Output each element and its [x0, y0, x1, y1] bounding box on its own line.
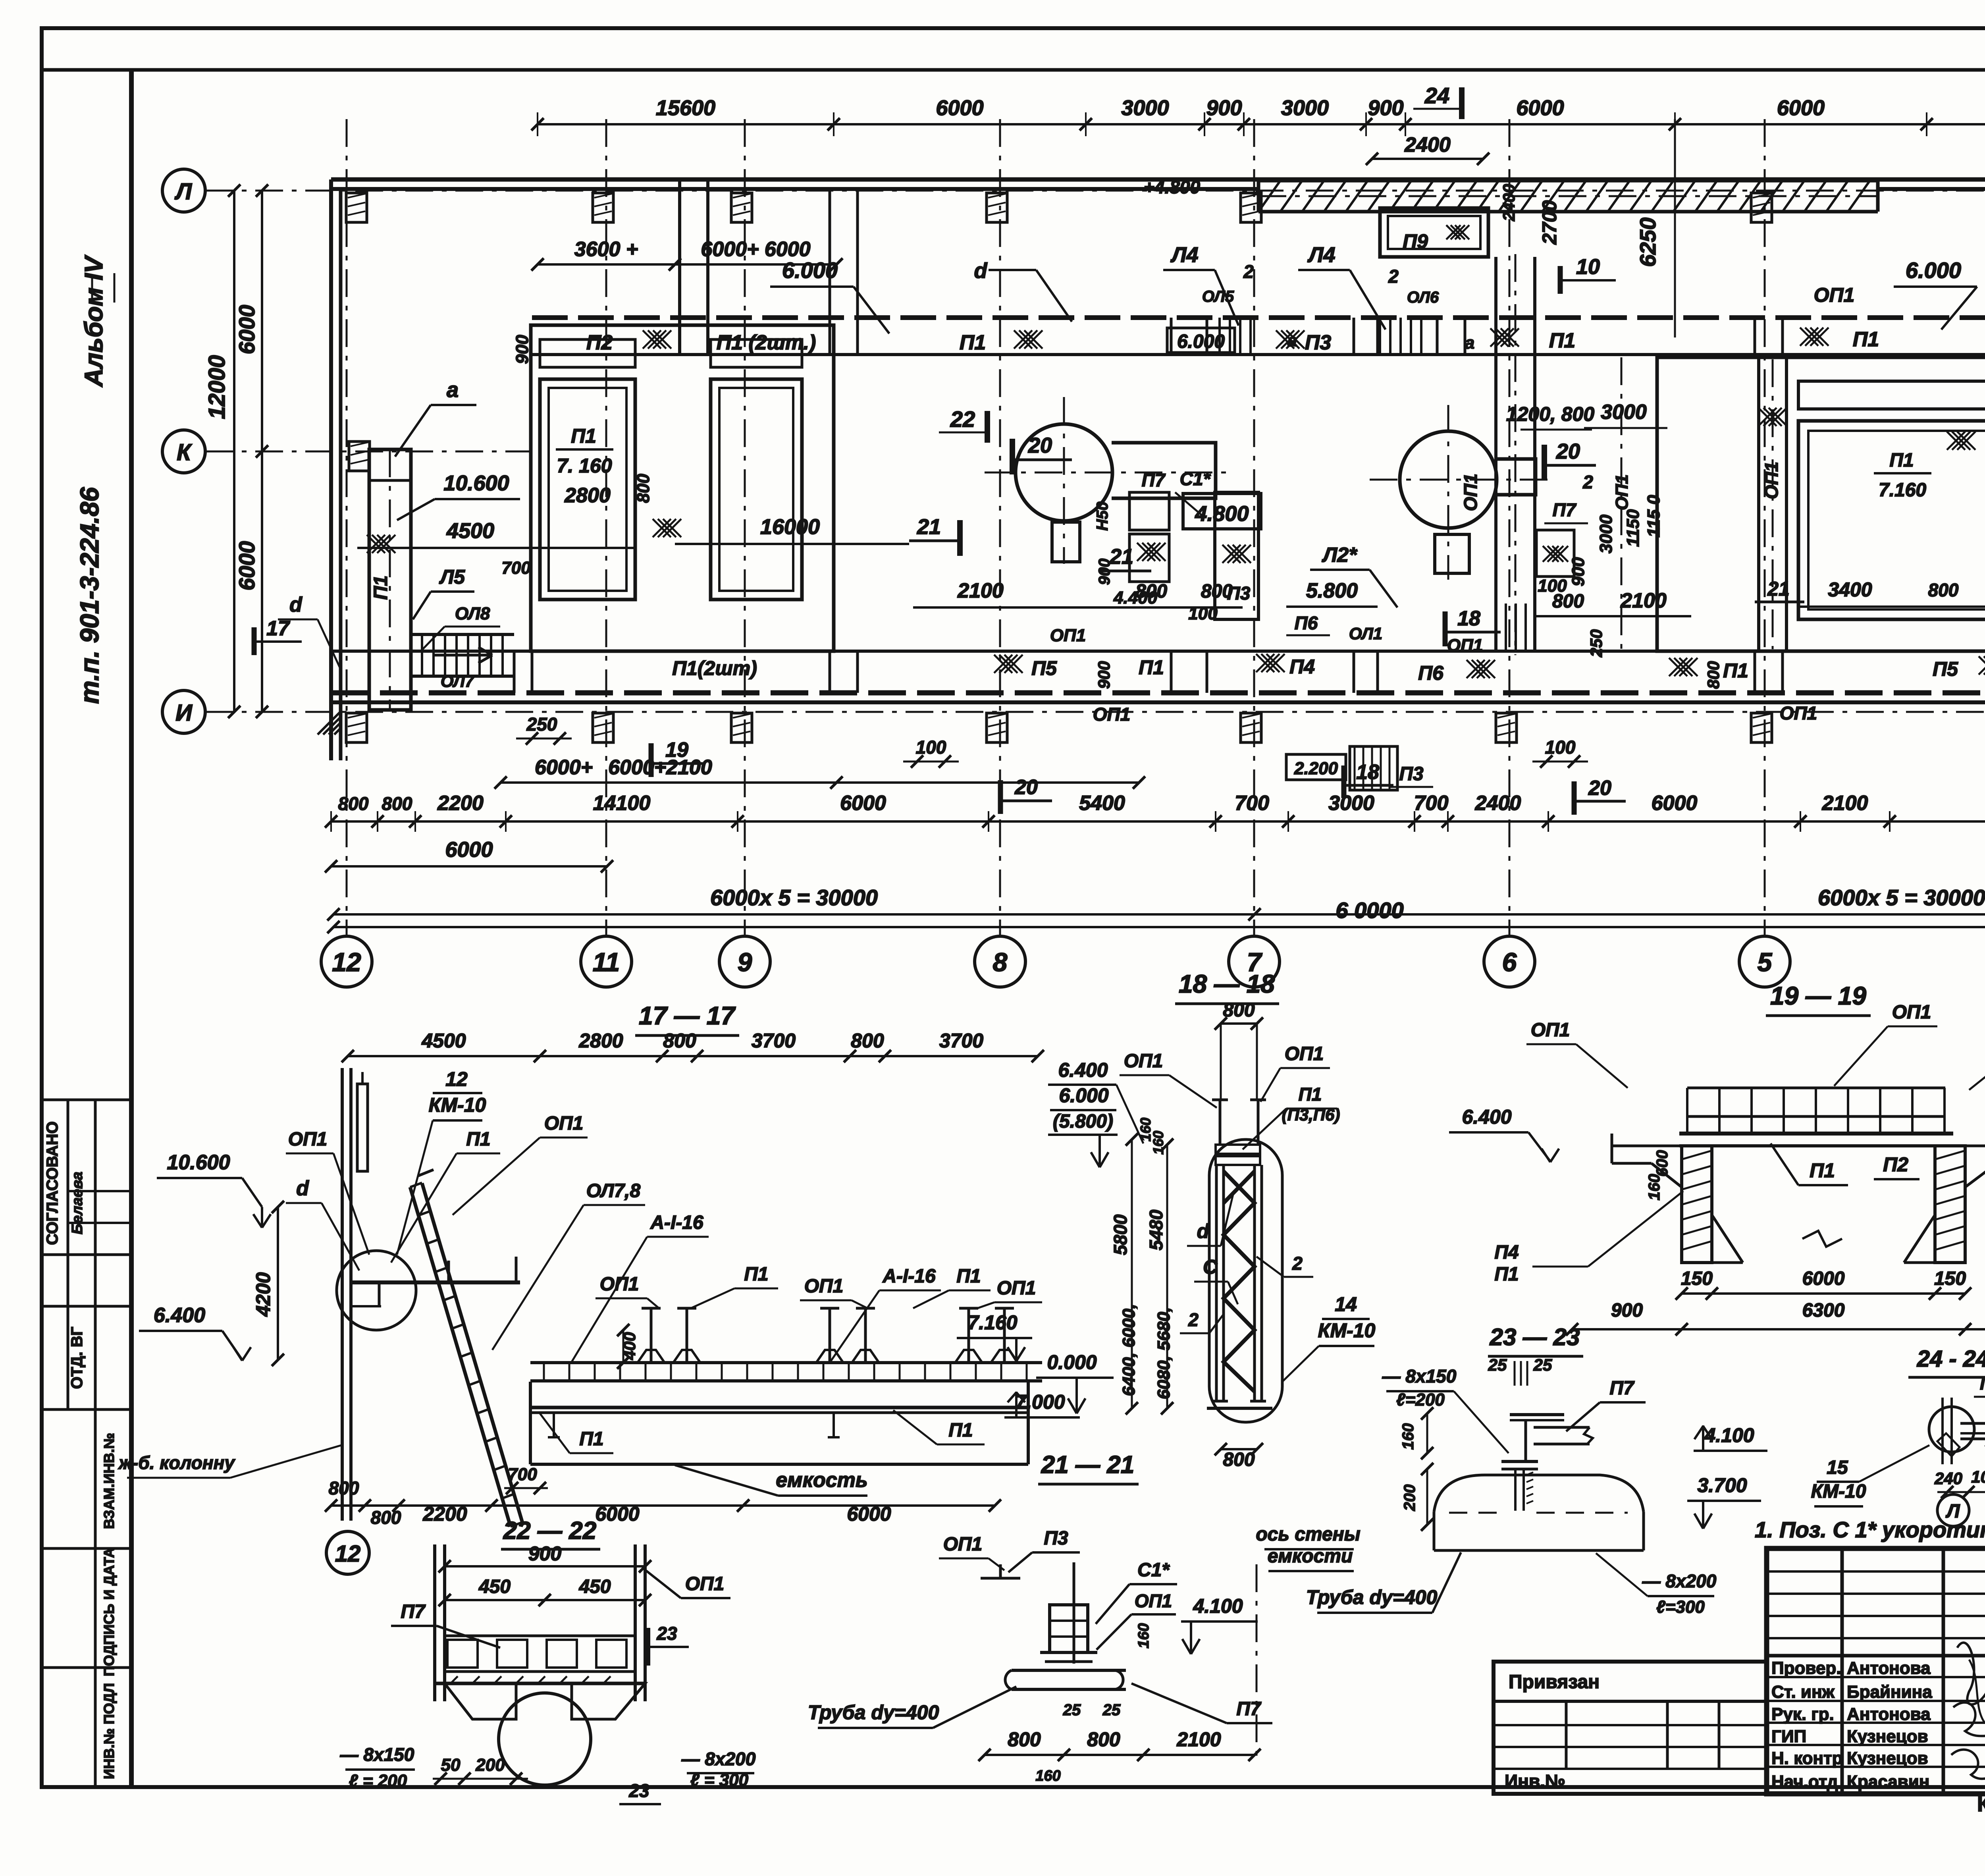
- grid axis circle 11: [581, 936, 632, 987]
- svg-text:емкость: емкость: [776, 1469, 868, 1492]
- axis circle L under 24-24: [1937, 1494, 1969, 1526]
- grid axis 9 line: [744, 119, 746, 936]
- svg-text:6300: 6300: [1802, 1300, 1845, 1321]
- svg-text:П3: П3: [1305, 331, 1331, 354]
- svg-text:(5.800): (5.800): [1053, 1111, 1113, 1132]
- left tank 1: [540, 379, 635, 600]
- svg-text:200: 200: [475, 1755, 505, 1775]
- svg-text:21: 21: [1767, 578, 1790, 600]
- svg-text:— 8х150: — 8х150: [340, 1744, 414, 1765]
- svg-text:ОП1: ОП1: [1531, 1020, 1570, 1041]
- section 22-22 pipe circle: [499, 1693, 591, 1785]
- section 21-21 box: [1050, 1605, 1088, 1652]
- svg-text:П1: П1: [1494, 1264, 1519, 1285]
- svg-text:а: а: [447, 378, 459, 402]
- svg-text:ИНВ.№ ПОДЛ: ИНВ.№ ПОДЛ: [101, 1683, 117, 1779]
- svg-text:ОП1: ОП1: [544, 1113, 584, 1134]
- section 19-19 railing grid: [1687, 1087, 1945, 1089]
- svg-text:СОГЛАСОВАНО: СОГЛАСОВАНО: [44, 1121, 61, 1245]
- svg-text:П7: П7: [1553, 499, 1577, 520]
- section 23-23 channel right with break: [1534, 1426, 1590, 1429]
- svg-text:— 8х200: — 8х200: [1642, 1571, 1717, 1591]
- svg-text:8: 8: [993, 947, 1008, 977]
- svg-text:П1(2шт): П1(2шт): [672, 657, 757, 679]
- svg-text:П1: П1: [571, 425, 596, 447]
- svg-text:2400: 2400: [1404, 133, 1451, 156]
- svg-text:800: 800: [1552, 591, 1584, 612]
- section 24-24 bracket channel: [1960, 1422, 1985, 1425]
- svg-text:800: 800: [1008, 1728, 1041, 1751]
- section 22-22 bottom band: [435, 1682, 645, 1685]
- upper walkway strip top chord OP1: [532, 315, 1985, 320]
- svg-text:2700: 2700: [1538, 200, 1561, 245]
- svg-text:т.п. 901-3-224.86: т.п. 901-3-224.86: [75, 487, 104, 704]
- small rooms P7 C1 near pump1: [1129, 492, 1169, 530]
- svg-text:23 — 23: 23 — 23: [1490, 1324, 1580, 1350]
- svg-text:П4: П4: [1289, 656, 1315, 678]
- svg-text:22 — 22: 22 — 22: [503, 1517, 596, 1544]
- svg-text:ВЗАМ.ИНВ.№: ВЗАМ.ИНВ.№: [101, 1433, 117, 1529]
- svg-text:17 — 17: 17 — 17: [639, 1001, 736, 1030]
- svg-text:800: 800: [382, 793, 412, 814]
- svg-text:ОП1: ОП1: [1780, 703, 1817, 723]
- svg-text:d: d: [974, 259, 988, 283]
- svg-text:700: 700: [1235, 792, 1269, 815]
- svg-text:6.400: 6.400: [1058, 1059, 1108, 1081]
- left landing top ledge: [369, 448, 411, 451]
- svg-text:20: 20: [1556, 440, 1580, 463]
- svg-text:1150: 1150: [1623, 509, 1643, 547]
- svg-text:6000: 6000: [1777, 96, 1825, 120]
- svg-text:П1: П1: [370, 575, 391, 600]
- svg-text:10.600: 10.600: [443, 471, 509, 495]
- svg-text:12000: 12000: [204, 355, 230, 419]
- svg-text:160: 160: [1399, 1423, 1417, 1450]
- svg-text:800: 800: [634, 474, 653, 503]
- svg-text:ℓ=200: ℓ=200: [1396, 1390, 1445, 1409]
- svg-text:200: 200: [1401, 1485, 1418, 1512]
- lower walkway strip top line: [331, 650, 1985, 653]
- svg-text:3600 +: 3600 +: [574, 238, 638, 261]
- svg-text:3000: 3000: [1601, 401, 1647, 424]
- svg-text:12: 12: [445, 1068, 468, 1090]
- svg-text:6.000: 6.000: [782, 258, 838, 283]
- svg-text:П1: П1: [1299, 1084, 1322, 1105]
- grid circle 12 under section 17-17: [326, 1531, 369, 1574]
- svg-text:ОП1: ОП1: [1135, 1591, 1172, 1611]
- section 17-17 plank row: [530, 1361, 1042, 1364]
- svg-text:1000: 1000: [1971, 1467, 1985, 1486]
- svg-text:6000: 6000: [840, 792, 886, 815]
- svg-text:700: 700: [501, 558, 531, 578]
- svg-text:11: 11: [593, 947, 620, 977]
- svg-text:ГИП: ГИП: [1771, 1727, 1806, 1746]
- svg-text:10: 10: [1576, 255, 1600, 279]
- svg-text:5400: 5400: [1079, 792, 1125, 815]
- left vertical dims 6000 6000: [261, 191, 263, 712]
- svg-text:Привязан: Привязан: [1509, 1672, 1600, 1693]
- svg-text:ОП1: ОП1: [997, 1278, 1036, 1299]
- svg-text:Ст. инж: Ст. инж: [1771, 1682, 1835, 1702]
- dim row 6000 left: [331, 865, 607, 868]
- section 18-18 detail capsule outline: [1209, 1139, 1282, 1422]
- svg-text:2.200: 2.200: [1294, 759, 1338, 778]
- svg-text:160: 160: [1035, 1768, 1060, 1784]
- svg-text:6080, 5680,: 6080, 5680,: [1154, 1307, 1174, 1399]
- svg-text:17: 17: [266, 617, 290, 640]
- svg-text:П1: П1: [1723, 659, 1748, 682]
- lower strip partitions: [513, 651, 516, 693]
- svg-text:— 8х200: — 8х200: [681, 1749, 756, 1769]
- svg-text:6000+2100: 6000+2100: [608, 756, 712, 779]
- svg-text:ОП1: ОП1: [1093, 704, 1130, 725]
- columns along bottom wall: [346, 713, 367, 742]
- section 21-21 vertical post: [1073, 1562, 1075, 1664]
- svg-text:6: 6: [1502, 947, 1517, 977]
- dim 2400 above stair room: [1372, 158, 1483, 160]
- section 18-18 left dim lines: [1131, 1139, 1133, 1408]
- svg-text:П7: П7: [1236, 1699, 1262, 1720]
- svg-text:800: 800: [1928, 580, 1959, 600]
- svg-text:Антонова: Антонова: [1847, 1704, 1931, 1724]
- svg-text:2: 2: [1188, 1309, 1199, 1330]
- svg-text:Кузнецов: Кузнецов: [1847, 1727, 1928, 1746]
- section 18-18 top connection plates: [1216, 1145, 1260, 1154]
- svg-text:6.000: 6.000: [1059, 1084, 1108, 1107]
- svg-text:ОП1: ОП1: [1892, 1002, 1931, 1023]
- axis K circle: [162, 430, 205, 473]
- svg-text:ОЛ5: ОЛ5: [1202, 288, 1234, 305]
- svg-text:1. Поз. С 1* укоротить на: 1. Поз. С 1* укоротить на 100мм, поз.Л2*: [1755, 1517, 1985, 1542]
- svg-text:0.000: 0.000: [1047, 1351, 1097, 1373]
- svg-text:Капировал:: Капировал:: [1977, 1792, 1985, 1816]
- svg-text:П1: П1: [579, 1429, 603, 1450]
- svg-text:ОЛ8: ОЛ8: [455, 604, 490, 623]
- svg-text:21: 21: [917, 515, 941, 539]
- svg-text:Н50: Н50: [1094, 501, 1111, 530]
- svg-text:7.160: 7.160: [1879, 480, 1926, 501]
- svg-text:6000: 6000: [847, 1503, 891, 1525]
- svg-text:4.100: 4.100: [1704, 1424, 1754, 1446]
- section 17-17 bottom dim row: [331, 1504, 995, 1507]
- svg-text:6.000: 6.000: [1906, 258, 1961, 283]
- boxed level 6.000 on plan: [1167, 328, 1235, 353]
- svg-text:800: 800: [1135, 581, 1167, 602]
- svg-text:4.800: 4.800: [1195, 502, 1249, 526]
- grid axis circle 8: [975, 936, 1025, 987]
- svg-text:24 - 24: 24 - 24: [1917, 1346, 1985, 1372]
- svg-text:14100: 14100: [593, 792, 651, 815]
- svg-text:5: 5: [1758, 947, 1773, 977]
- section 22-22 dim 900: [445, 1565, 645, 1568]
- svg-text:6.000: 6.000: [1177, 331, 1225, 352]
- svg-text:15600: 15600: [656, 96, 715, 120]
- title block outline: [1767, 1548, 1985, 1794]
- svg-text:18: 18: [1356, 761, 1379, 784]
- axis L line: [205, 190, 1985, 192]
- section 19-19 wall haunches: [1712, 1215, 1743, 1263]
- pump circle 1 axis cross: [985, 472, 1231, 474]
- section 22-22 side plates: [433, 1544, 436, 1701]
- left end wall footing hatch: [318, 711, 341, 735]
- top wall hatched parapet section: [1258, 179, 1878, 183]
- svg-text:П2: П2: [1883, 1153, 1908, 1176]
- svg-text:С1*: С1*: [1180, 469, 1211, 489]
- svg-text:Л: Л: [174, 179, 192, 204]
- svg-text:ОЛ7,8: ОЛ7,8: [586, 1180, 641, 1201]
- boxed level 4.800: [1183, 494, 1261, 529]
- partition walls upper area: [678, 179, 681, 355]
- svg-text:25: 25: [1063, 1701, 1081, 1719]
- svg-text:2400: 2400: [1475, 792, 1521, 815]
- svg-text:700: 700: [508, 1465, 537, 1484]
- section 19-19 tank walls hatched: [1682, 1146, 1712, 1263]
- svg-text:900: 900: [1368, 96, 1403, 120]
- svg-text:П7: П7: [401, 1601, 426, 1622]
- svg-text:ПОДПИСЬ И ДАТА: ПОДПИСЬ И ДАТА: [101, 1548, 117, 1676]
- svg-text:Провер.: Провер.: [1771, 1658, 1841, 1678]
- pump unit circle 1: [1016, 424, 1112, 521]
- drawing area left margin line: [129, 70, 134, 1787]
- svg-text:П1: П1: [1853, 328, 1879, 351]
- column at axis K left wall: [349, 442, 370, 471]
- section 19-19 slab: [1679, 1132, 1953, 1136]
- svg-text:а: а: [1465, 333, 1474, 353]
- svg-text:П1: П1: [1139, 656, 1164, 679]
- grid axis circle 5: [1739, 936, 1790, 987]
- left tank 2: [711, 379, 802, 600]
- left tall landing structure P1: [369, 449, 411, 710]
- svg-text:6 0000: 6 0000: [1336, 898, 1403, 923]
- svg-text:6000: 6000: [1516, 96, 1564, 120]
- svg-text:900: 900: [1095, 661, 1113, 689]
- title block upper left grid rows: [1767, 1570, 1985, 1573]
- svg-text:12: 12: [335, 1541, 361, 1567]
- svg-text:Рук. гр.: Рук. гр.: [1771, 1704, 1834, 1724]
- main chain dimension row below plan: [331, 820, 1985, 823]
- svg-text:КМ-10: КМ-10: [429, 1094, 486, 1116]
- svg-text:700: 700: [1414, 792, 1449, 815]
- svg-text:12: 12: [332, 947, 361, 977]
- svg-text:6250: 6250: [1635, 218, 1660, 267]
- section 22-22 inner channels: [445, 1635, 635, 1637]
- svg-text:3000: 3000: [1281, 96, 1329, 120]
- privyazan table grid: [1565, 1701, 1568, 1769]
- svg-text:240: 240: [1934, 1469, 1962, 1488]
- svg-text:а: а: [1287, 331, 1297, 350]
- svg-text:2100: 2100: [1822, 792, 1868, 815]
- right group header cells: [1798, 381, 1985, 409]
- svg-text:П7: П7: [1142, 470, 1166, 490]
- svg-text:450: 450: [578, 1576, 611, 1597]
- section 19-19 dims 150 6000 150: [1682, 1292, 1965, 1295]
- grid axis circle 6: [1484, 936, 1535, 987]
- grid axis 7 line: [1253, 119, 1255, 936]
- svg-text:100: 100: [916, 737, 946, 758]
- svg-text:2100: 2100: [1176, 1728, 1221, 1751]
- svg-text:П6: П6: [1295, 613, 1318, 633]
- right group wall pairs with OP1 axes: [1757, 357, 1760, 651]
- svg-text:4.100: 4.100: [1193, 1595, 1243, 1617]
- svg-text:Антонова: Антонова: [1847, 1658, 1931, 1678]
- svg-text:3.700: 3.700: [1697, 1474, 1747, 1496]
- second left dim row 3600 6000 6000: [538, 263, 836, 266]
- svg-text:7.160: 7.160: [967, 1311, 1017, 1334]
- svg-text:6000: 6000: [1652, 792, 1698, 815]
- svg-text:20: 20: [1028, 434, 1052, 457]
- right tank group outline: [1657, 357, 1985, 651]
- title block upper left verticals: [1840, 1548, 1844, 1794]
- svg-text:С1*: С1*: [1137, 1560, 1170, 1581]
- svg-text:800: 800: [1704, 661, 1723, 689]
- stairwell corridor walls: [1494, 257, 1497, 651]
- svg-text:2: 2: [1243, 261, 1254, 282]
- svg-text:П9: П9: [1980, 1374, 1985, 1394]
- upper walkway strip bottom line: [532, 353, 1985, 356]
- grid axis circle 12: [321, 936, 372, 987]
- svg-text:П6: П6: [1418, 662, 1444, 684]
- axis K line: [205, 451, 532, 453]
- grid axis 11 line: [605, 119, 607, 936]
- svg-text:А-І-16: А-І-16: [650, 1212, 703, 1233]
- svg-text:23: 23: [628, 1780, 649, 1801]
- svg-text:ОЛ7: ОЛ7: [441, 672, 475, 690]
- svg-text:ОП1: ОП1: [1460, 474, 1481, 511]
- svg-text:160: 160: [1150, 1131, 1166, 1155]
- svg-text:800: 800: [329, 1478, 359, 1498]
- svg-text:КМ-10: КМ-10: [1318, 1319, 1376, 1342]
- svg-text:2400: 2400: [1499, 184, 1518, 221]
- svg-text:ОП1: ОП1: [943, 1534, 983, 1555]
- lower walkway strip bottom chord OP1: [331, 690, 1985, 696]
- section 17-17 ladder top hook: [418, 1170, 434, 1176]
- svg-text:2: 2: [1388, 266, 1399, 287]
- svg-text:6000: 6000: [234, 305, 259, 355]
- svg-text:24: 24: [1424, 83, 1449, 108]
- svg-text:6000х 5 = 30000: 6000х 5 = 30000: [1818, 885, 1985, 910]
- section 23-23 big pipe cylinder: [1434, 1475, 1644, 1512]
- svg-text:25: 25: [1533, 1355, 1552, 1374]
- left tank block outline: [531, 325, 834, 651]
- svg-text:2200: 2200: [437, 792, 484, 815]
- svg-text:20: 20: [1588, 777, 1611, 800]
- axis I line: [205, 711, 1985, 713]
- svg-text:П3: П3: [1399, 764, 1424, 785]
- svg-text:ОП1: ОП1: [685, 1573, 725, 1595]
- svg-text:П1: П1: [1810, 1159, 1835, 1182]
- svg-text:Л4: Л4: [1170, 243, 1198, 267]
- section 23-23 I-beam: [1510, 1413, 1564, 1416]
- section 17-17 detail circle: [337, 1251, 416, 1330]
- svg-text:2800: 2800: [578, 1030, 623, 1052]
- svg-text:4500: 4500: [421, 1030, 466, 1052]
- svg-text:П1: П1: [960, 331, 986, 354]
- svg-text:2100: 2100: [1620, 589, 1667, 612]
- svg-text:23: 23: [656, 1623, 677, 1644]
- stair bump-out room P9: [1380, 208, 1488, 257]
- svg-text:150: 150: [1681, 1268, 1713, 1289]
- svg-text:Кузнецов: Кузнецов: [1847, 1749, 1928, 1768]
- svg-text:800: 800: [1223, 1000, 1255, 1021]
- svg-text:6000: 6000: [936, 96, 983, 120]
- svg-text:5.800: 5.800: [1306, 579, 1358, 602]
- svg-text:800: 800: [1087, 1728, 1120, 1751]
- svg-text:ОП1: ОП1: [1050, 626, 1086, 645]
- svg-text:П1: П1: [1889, 450, 1914, 471]
- section 18-18 truss zigzag web: [1224, 1171, 1255, 1392]
- svg-text:2800: 2800: [564, 484, 611, 507]
- section 17-17 tank emkost outline: [529, 1382, 532, 1464]
- svg-text:Инв.№: Инв.№: [1505, 1771, 1565, 1791]
- svg-text:d: d: [289, 593, 303, 616]
- section 17-17 left column: [341, 1068, 344, 1521]
- signature scribbles: [1957, 1643, 1985, 1704]
- svg-text:И: И: [175, 700, 193, 726]
- svg-text:ОП1: ОП1: [1285, 1043, 1324, 1064]
- svg-text:6000х 5 = 30000: 6000х 5 = 30000: [710, 885, 878, 910]
- svg-text:3400: 3400: [1828, 578, 1872, 601]
- svg-text:3000: 3000: [1596, 515, 1616, 553]
- svg-text:50: 50: [441, 1755, 461, 1775]
- svg-text:6.400: 6.400: [154, 1304, 205, 1327]
- svg-text:7. 160: 7. 160: [557, 455, 612, 477]
- svg-text:2: 2: [1292, 1253, 1303, 1274]
- svg-text:П1: П1: [744, 1264, 768, 1285]
- svg-text:900: 900: [1206, 96, 1242, 120]
- bottom wall double line: [331, 700, 1985, 704]
- svg-text:5800: 5800: [1110, 1214, 1131, 1255]
- section 18-18 base: [1207, 1407, 1272, 1410]
- svg-text:6.400: 6.400: [1462, 1106, 1511, 1128]
- section 18-18 top posts: [1219, 1100, 1222, 1145]
- svg-text:250: 250: [1587, 629, 1605, 657]
- svg-text:ОП1: ОП1: [804, 1276, 844, 1297]
- section 17-17 top dim row: [348, 1055, 1038, 1057]
- svg-text:25: 25: [1488, 1355, 1507, 1374]
- svg-text:9: 9: [738, 947, 752, 977]
- svg-text:900: 900: [1569, 557, 1588, 586]
- svg-text:ось стены: ось стены: [1256, 1524, 1360, 1545]
- svg-text:800: 800: [851, 1030, 884, 1052]
- boxed 2.200 below plan: [1286, 754, 1346, 780]
- svg-text:20: 20: [1014, 776, 1038, 799]
- svg-text:2: 2: [1582, 472, 1593, 492]
- title block staff rows: [1767, 1676, 1985, 1678]
- svg-text:25: 25: [1102, 1701, 1121, 1719]
- grid axis 12 line: [346, 119, 348, 936]
- right group tank cells: [1798, 421, 1985, 619]
- upper strip stair treads right of stairwell: [1379, 318, 1381, 355]
- svg-text:6000: 6000: [234, 541, 259, 591]
- svg-text:21 — 21: 21 — 21: [1041, 1451, 1134, 1479]
- section 19-19 break mark: [1802, 1231, 1842, 1247]
- svg-text:800: 800: [1223, 1449, 1255, 1470]
- svg-text:800: 800: [663, 1030, 696, 1052]
- svg-text:250: 250: [526, 714, 557, 735]
- svg-text:ОП1: ОП1: [288, 1129, 328, 1150]
- left margin approval table: [42, 1099, 131, 1101]
- svg-text:6400, 6000,: 6400, 6000,: [1119, 1304, 1139, 1396]
- section 22-22 dims 450 450: [445, 1599, 645, 1601]
- corridor stair treads bottom: [1495, 603, 1497, 651]
- svg-text:П5: П5: [1933, 658, 1958, 680]
- svg-text:900: 900: [528, 1542, 562, 1565]
- upper walkway strip partitions: [829, 318, 831, 355]
- section 17-17 platform slab: [530, 1406, 1028, 1409]
- section 17-17 walkway posts: [650, 1308, 653, 1363]
- svg-text:Нач.отд: Нач.отд: [1771, 1772, 1838, 1791]
- svg-text:ОП1: ОП1: [1124, 1051, 1163, 1072]
